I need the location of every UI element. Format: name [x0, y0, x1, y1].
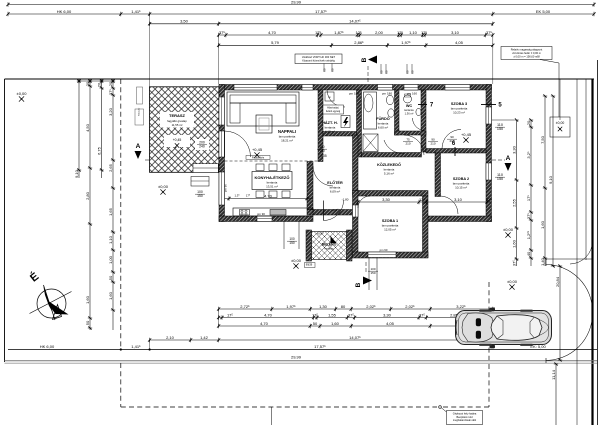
- svg-text:2,02⁵: 2,02⁵: [366, 304, 376, 309]
- svg-text:pm 180: pm 180: [349, 92, 359, 96]
- svg-text:20: 20: [96, 82, 101, 87]
- svg-text:3,10: 3,10: [451, 30, 460, 35]
- svg-text:210: 210: [405, 142, 410, 146]
- svg-text:2,02⁵: 2,02⁵: [405, 304, 415, 309]
- svg-text:37⁵: 37⁵: [348, 312, 354, 317]
- svg-text:vízszintes fedér ± 0,00 m: vízszintes fedér ± 0,00 m: [512, 51, 541, 55]
- svg-text:3,22⁵: 3,22⁵: [456, 304, 466, 309]
- svg-text:1,10: 1,10: [409, 30, 418, 35]
- svg-text:29,99: 29,99: [291, 355, 302, 360]
- svg-text:1,60: 1,60: [85, 295, 90, 304]
- svg-text:20: 20: [108, 81, 113, 86]
- svg-text:37⁵: 37⁵: [486, 197, 492, 202]
- svg-text:12⁵: 12⁵: [419, 197, 425, 202]
- svg-text:HK 6,00: HK 6,00: [57, 9, 72, 14]
- svg-text:4,70: 4,70: [260, 321, 269, 326]
- svg-text:60: 60: [411, 70, 415, 74]
- svg-text:210: 210: [430, 142, 435, 146]
- svg-text:Relatív magasság alappont: Relatív magasság alappont: [511, 48, 543, 52]
- svg-text:6,60 m²: 6,60 m²: [378, 126, 388, 130]
- svg-text:1,60: 1,60: [331, 321, 340, 326]
- svg-text:3,2⁵: 3,2⁵: [526, 151, 531, 159]
- svg-text:Padlófűtés: Padlófűtés: [252, 156, 265, 160]
- svg-text:SZOBA 3: SZOBA 3: [451, 102, 467, 106]
- svg-text:3,30: 3,30: [382, 197, 391, 202]
- svg-text:50: 50: [108, 275, 113, 280]
- svg-text:1,97⁵: 1,97⁵: [401, 40, 411, 45]
- svg-text:17,57⁵: 17,57⁵: [314, 344, 326, 349]
- svg-text:+0,45: +0,45: [252, 147, 263, 152]
- svg-text:37⁵: 37⁵: [526, 213, 531, 219]
- svg-text:12⁵: 12⁵: [421, 30, 427, 35]
- svg-text:37⁵: 37⁵: [108, 89, 113, 95]
- svg-text:3,10: 3,10: [454, 197, 463, 202]
- svg-text:4,05: 4,05: [455, 40, 464, 45]
- svg-text:2,72⁵: 2,72⁵: [240, 304, 250, 309]
- svg-text:+0,45: +0,45: [461, 132, 472, 137]
- svg-text:150: 150: [370, 271, 375, 275]
- svg-text:KÖZLEKEDŐ: KÖZLEKEDŐ: [377, 162, 401, 167]
- svg-text:-1,80: -1,80: [342, 198, 349, 202]
- svg-text:3,20: 3,20: [108, 107, 113, 116]
- svg-text:60: 60: [323, 68, 327, 72]
- svg-text:150: 150: [497, 127, 503, 131]
- svg-text:4,19 m²: 4,19 m²: [325, 130, 335, 134]
- svg-text:kerámia: kerámia: [325, 248, 335, 251]
- svg-text:±0,00: ±0,00: [17, 91, 28, 96]
- svg-text:10,15 m²: 10,15 m²: [455, 186, 467, 190]
- svg-text:SZOBA 1: SZOBA 1: [382, 219, 398, 223]
- svg-text:2,10: 2,10: [166, 335, 175, 340]
- svg-text:2,35: 2,35: [320, 154, 326, 158]
- svg-text:240: 240: [199, 145, 205, 149]
- svg-text:11,55 m²: 11,55 m²: [172, 123, 183, 127]
- svg-text:2,80: 2,80: [85, 191, 90, 200]
- svg-text:NAPPALI: NAPPALI: [278, 129, 296, 134]
- svg-text:TERASZ: TERASZ: [169, 113, 186, 118]
- svg-text:A: A: [506, 155, 511, 162]
- svg-text:1,30: 1,30: [319, 304, 328, 309]
- svg-text:±0,00: ±0,00: [503, 227, 514, 232]
- svg-text:meghatározásán álló: meghatározásán álló: [453, 419, 477, 422]
- svg-text:1,87⁵: 1,87⁵: [334, 30, 344, 35]
- svg-text:pm 160: pm 160: [407, 92, 417, 96]
- svg-text:pm 90: pm 90: [224, 184, 228, 192]
- svg-text:1,97⁵: 1,97⁵: [286, 304, 296, 309]
- svg-text:±0,00: ±0,00: [158, 184, 169, 189]
- svg-text:9,10: 9,10: [74, 169, 79, 178]
- svg-text:20: 20: [85, 81, 90, 86]
- svg-text:3,50: 3,50: [180, 19, 189, 24]
- svg-text:1,65: 1,65: [108, 207, 113, 216]
- svg-text:1,40: 1,40: [540, 257, 545, 266]
- svg-text:kerámia: kerámia: [404, 108, 414, 112]
- svg-text:29,99: 29,99: [291, 0, 302, 4]
- svg-text:+0,4⁵: +0,4⁵: [316, 232, 324, 236]
- svg-text:150: 150: [497, 177, 503, 181]
- svg-text:SZOBA 2: SZOBA 2: [453, 177, 469, 181]
- svg-text:1,60: 1,60: [511, 239, 516, 248]
- svg-text:150: 150: [197, 194, 203, 198]
- svg-text:1,41⁵: 1,41⁵: [131, 9, 141, 14]
- svg-text:4,70: 4,70: [264, 193, 273, 198]
- svg-text:+0,4⁵: +0,4⁵: [331, 208, 339, 212]
- svg-text:4,70: 4,70: [264, 312, 273, 317]
- svg-text:17⁵: 17⁵: [227, 312, 233, 317]
- svg-text:1,3⁵: 1,3⁵: [234, 194, 239, 198]
- svg-text:1,55: 1,55: [328, 312, 337, 317]
- svg-text:2,86⁵: 2,86⁵: [354, 40, 364, 45]
- svg-text:1,42: 1,42: [200, 335, 209, 340]
- svg-text:12⁵: 12⁵: [397, 30, 403, 35]
- svg-text:Hőszivattyú: Hőszivattyú: [327, 107, 340, 110]
- svg-text:6,75: 6,75: [96, 146, 101, 155]
- svg-text:12,05 m²: 12,05 m²: [384, 228, 396, 232]
- svg-text:B: B: [361, 57, 368, 62]
- svg-text:HK 6,00: HK 6,00: [40, 344, 55, 349]
- svg-text:± 0,00 m = 156,60 mBf: ± 0,00 m = 156,60 mBf: [513, 55, 540, 59]
- svg-text:150: 150: [319, 149, 325, 153]
- svg-text:HÁZT. H.: HÁZT. H.: [322, 120, 338, 125]
- svg-text:B: B: [355, 282, 362, 287]
- svg-text:1,00: 1,00: [108, 255, 113, 264]
- svg-text:2,55: 2,55: [511, 198, 516, 207]
- svg-text:EK 5,00: EK 5,00: [536, 9, 551, 14]
- svg-text:17,57⁵: 17,57⁵: [315, 9, 327, 14]
- svg-text:5,16 m²: 5,16 m²: [384, 172, 394, 176]
- svg-text:pm 180: pm 180: [382, 92, 392, 96]
- svg-text:1,10: 1,10: [108, 235, 113, 244]
- svg-text:3,30: 3,30: [383, 312, 392, 317]
- svg-text:2,65: 2,65: [108, 163, 113, 172]
- svg-text:FÜRDŐ: FÜRDŐ: [376, 116, 390, 121]
- svg-text:50: 50: [313, 321, 318, 326]
- svg-text:99|39: 99|39: [306, 263, 313, 267]
- svg-text:1,41⁵: 1,41⁵: [131, 344, 141, 349]
- svg-text:37⁵: 37⁵: [486, 30, 492, 35]
- svg-text:±0,00: ±0,00: [556, 121, 565, 125]
- svg-text:A: A: [136, 143, 141, 150]
- svg-text:20: 20: [526, 120, 531, 125]
- svg-text:150: 150: [289, 241, 295, 245]
- svg-text:Hűsaszív: Hűsaszív: [139, 108, 141, 116]
- svg-text:pm 90: pm 90: [380, 248, 388, 252]
- svg-text:60: 60: [331, 68, 335, 72]
- svg-text:17⁵: 17⁵: [312, 312, 318, 317]
- svg-text:12⁵: 12⁵: [356, 30, 362, 35]
- svg-text:14,07⁵: 14,07⁵: [349, 19, 361, 24]
- svg-text:4,50: 4,50: [85, 123, 90, 132]
- svg-text:+0,45: +0,45: [173, 138, 182, 142]
- svg-text:9,10: 9,10: [548, 175, 553, 184]
- svg-text:18,21 m²: 18,21 m²: [281, 139, 293, 143]
- svg-text:37⁵: 37⁵: [219, 30, 225, 35]
- svg-text:4,70: 4,70: [268, 30, 277, 35]
- svg-text:20,84: 20,84: [555, 276, 560, 287]
- svg-text:60: 60: [380, 70, 384, 74]
- svg-text:1,60: 1,60: [540, 220, 545, 229]
- svg-text:17⁵: 17⁵: [315, 30, 321, 35]
- svg-text:Védőcső VORT HK 300 NET: Védőcső VORT HK 300 NET: [302, 55, 336, 59]
- svg-text:17⁵: 17⁵: [246, 194, 250, 198]
- svg-text:5,79: 5,79: [271, 40, 280, 45]
- svg-text:17⁵: 17⁵: [526, 195, 531, 201]
- svg-text:210: 210: [449, 139, 454, 143]
- svg-text:±0,00: ±0,00: [507, 279, 518, 284]
- svg-text:1,36 m²: 1,36 m²: [405, 112, 414, 116]
- svg-text:±0,00: ±0,00: [291, 258, 302, 263]
- svg-text:13,51 m²: 13,51 m²: [266, 185, 278, 189]
- svg-text:6,09 m²: 6,09 m²: [330, 190, 340, 194]
- svg-text:pm 90: pm 90: [257, 212, 265, 216]
- svg-text:3,30: 3,30: [511, 145, 516, 154]
- svg-text:50: 50: [85, 320, 90, 325]
- svg-text:2,00: 2,00: [375, 30, 384, 35]
- svg-text:14,07⁵: 14,07⁵: [349, 335, 361, 340]
- svg-text:11,14: 11,14: [551, 369, 556, 379]
- svg-text:80: 80: [341, 304, 346, 309]
- svg-text:40: 40: [526, 251, 531, 256]
- svg-text:60: 60: [385, 70, 389, 74]
- svg-text:1,60: 1,60: [108, 291, 113, 300]
- svg-text:37⁵: 37⁵: [511, 260, 516, 266]
- svg-text:37⁵: 37⁵: [419, 312, 425, 317]
- svg-text:Központi közművek szintjéig: Központi közművek szintjéig: [302, 59, 335, 63]
- svg-text:60: 60: [406, 70, 410, 74]
- svg-text:10,23 m²: 10,23 m²: [453, 111, 465, 115]
- svg-text:ELŐTÉR: ELŐTÉR: [327, 180, 343, 185]
- svg-text:KONYHA-ÉTKEZŐ: KONYHA-ÉTKEZŐ: [255, 175, 290, 180]
- svg-text:4,05: 4,05: [386, 321, 395, 326]
- svg-text:beltéri egység: beltéri egység: [326, 110, 341, 113]
- svg-text:1,2²⁵: 1,2²⁵: [526, 230, 531, 239]
- svg-text:7,50: 7,50: [540, 135, 545, 144]
- svg-text:WC: WC: [406, 104, 413, 108]
